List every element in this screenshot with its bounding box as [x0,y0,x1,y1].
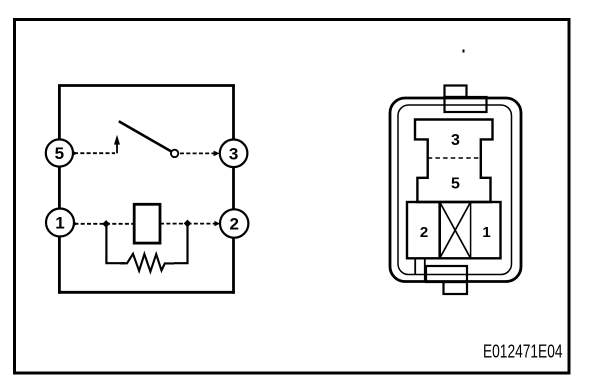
wire: right junction down-leg to resistor [174,226,188,263]
terminal 3 [220,140,248,168]
wire: right vertical from terminal 2 down to bottom bus [232,238,235,294]
pointer nub at terminal 1 [73,221,78,226]
wire: dashed from terminal 1 to left junction [74,223,104,225]
wire: dashed from relay coil to right junction [160,223,188,225]
pin cavity block for terminals 3 and 5 [415,120,493,203]
svg-text:1: 1 [55,214,64,233]
junction dot right [184,220,192,228]
terminal 1 [46,209,74,237]
connector pointer at terminal 3 [214,151,220,157]
wire: top horizontal bus of relay box [58,84,235,87]
wire: left vertical from terminal 1 down to bottom bus [58,237,61,294]
svg-text:2: 2 [420,224,428,241]
svg-text:2: 2 [229,215,238,234]
switch arm [119,121,172,151]
relay coil L1 [134,204,160,243]
wire: right vertical from box top-right corner to terminal 3 [232,86,235,140]
connector outer shell [390,98,521,282]
svg-text:5: 5 [451,176,460,193]
wire: dashed from left junction to relay coil [106,223,134,225]
resistor R (in parallel with coil) [120,254,174,272]
connector inner shell [398,105,512,275]
divider between pin 2 cavity and keyway [438,202,441,258]
wire: left junction down-leg to resistor [106,226,125,263]
wire: left vertical between terminal 5 and terminal 1 [58,167,61,209]
svg-text:1: 1 [482,224,490,241]
divider between cavity 3 and cavity 5 [428,157,481,159]
wire: bottom horizontal bus of relay box [58,291,235,294]
divider between keyway and pin 1 cavity [470,202,472,258]
keyway X mark [440,202,471,258]
wire: dashed from right junction to terminal 2 [188,223,217,225]
pointer nub at terminal 5 [73,151,78,156]
svg-text:E012471E04: E012471E04 [483,342,563,362]
svg-text:3: 3 [229,145,238,164]
wire: right vertical between terminal 3 and terminal 2 [232,167,235,210]
wire: dashed from terminal 5 to switch arrow [74,152,115,154]
wire: dashed from switch contact to terminal 3 [180,152,216,154]
top mounting tab [445,86,487,113]
terminal 2 [220,209,248,237]
switch actuation arrow [114,135,120,154]
bottom mounting tab [426,266,467,294]
latch notch below pin 2 [415,258,425,281]
svg-text:3: 3 [451,132,460,149]
switch contact pivot (open circle) [171,150,178,157]
pin row housing [407,202,501,258]
junction dot left [102,220,110,228]
terminal 5 [46,139,73,166]
wire: left vertical from box top-left corner to terminal 5 [58,86,61,140]
svg-text:5: 5 [55,144,64,163]
pointer nub at terminal 2 [214,221,220,226]
